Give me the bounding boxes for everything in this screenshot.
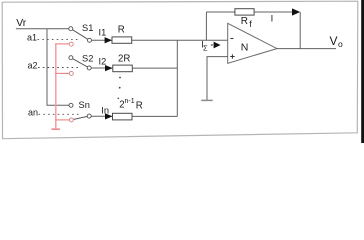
current I-sigma label — [201, 40, 208, 53]
switch S1 pole contact — [88, 38, 92, 42]
wire red stub S2 — [55, 72, 69, 74]
switch S2 pole contact — [87, 66, 91, 70]
wire non-inverting input to ground — [207, 57, 228, 101]
svg-text:Vr: Vr — [16, 17, 27, 29]
wire R to op-amp inverting input — [132, 39, 228, 41]
resistor 2^(n-1)R value label — [119, 98, 142, 111]
op-amp non-inverting input plus sign — [230, 54, 234, 58]
switch S1 ground contact red — [69, 42, 73, 46]
node Vo label — [330, 34, 344, 49]
ground bus red vertical — [55, 44, 57, 129]
wire a1 control dashed — [38, 38, 80, 40]
wire summing bus vertical — [176, 40, 178, 116]
switch S2 throw contact — [69, 56, 73, 60]
svg-text:N: N — [241, 42, 249, 54]
switch Sn throw contact — [69, 103, 73, 107]
ground — [201, 99, 213, 101]
switch S1 throw contact — [69, 27, 73, 31]
wire 2^(n-1)R to summing bus — [132, 115, 177, 117]
wire op-amp output — [277, 48, 336, 50]
wire output node vertical — [299, 12, 301, 49]
svg-text:R: R — [241, 16, 248, 27]
svg-text:V: V — [330, 34, 338, 48]
svg-text:I1: I1 — [99, 28, 107, 38]
op-amp U1 triangle — [228, 23, 277, 63]
svg-text:n-1: n-1 — [125, 98, 135, 105]
resistor Rf value label — [241, 16, 252, 29]
switch S2 ground contact red — [69, 71, 73, 75]
wire 2R to summing bus — [132, 67, 177, 69]
wire Vr vertical bus — [47, 29, 69, 105]
svg-text:a1: a1 — [27, 33, 37, 43]
resistor 2R — [113, 65, 133, 72]
resistor Rf — [235, 9, 254, 15]
current I2 arrow — [105, 65, 113, 71]
current I-sigma arrow — [211, 42, 221, 49]
current In arrow — [105, 113, 112, 119]
current I1 arrow — [105, 37, 112, 43]
right edge black bar — [361, 0, 364, 143]
op-amp inverting input minus sign — [230, 38, 233, 40]
wire red stub Sn — [55, 119, 69, 121]
svg-text:2R: 2R — [118, 54, 130, 65]
resistor R — [112, 37, 132, 43]
svg-text:Σ: Σ — [203, 44, 208, 53]
wire red stub S1 — [55, 43, 69, 45]
wire S1 pole to R — [91, 39, 112, 41]
svg-text:S1: S1 — [82, 23, 93, 33]
switch Sn pole contact — [87, 114, 91, 118]
svg-text:an: an — [28, 108, 38, 118]
wire Rf to output node — [254, 11, 294, 13]
current I arrow — [292, 8, 300, 15]
switch S1 arm — [71, 29, 90, 41]
svg-text:R: R — [118, 25, 125, 36]
svg-text:S2: S2 — [82, 54, 93, 64]
wire feedback to Rf — [206, 11, 235, 13]
ellipsis dots between resistor rows — [118, 77, 121, 100]
border frame — [2, 1, 358, 139]
switch S2 arm — [71, 58, 89, 68]
wire a2 control dashed — [38, 67, 80, 69]
svg-text:I: I — [271, 13, 274, 24]
wire feedback vertical at summing node — [205, 12, 207, 40]
svg-text:a2: a2 — [28, 61, 38, 71]
svg-text:o: o — [338, 39, 343, 49]
wire Vr horizontal bus — [16, 28, 69, 30]
wire Sn pole to 2^(n-1)R — [91, 115, 112, 117]
wire S2 pole to 2R — [91, 67, 113, 69]
resistor 2^(n-1)R — [113, 113, 133, 120]
svg-text:Sn: Sn — [79, 100, 90, 110]
switch Sn arm — [71, 116, 89, 120]
wire an control dashed — [39, 113, 80, 115]
svg-text:I2: I2 — [99, 57, 107, 67]
svg-text:R: R — [136, 100, 143, 111]
ground red bottom bar — [51, 128, 60, 130]
switch Sn ground contact red — [69, 118, 73, 122]
